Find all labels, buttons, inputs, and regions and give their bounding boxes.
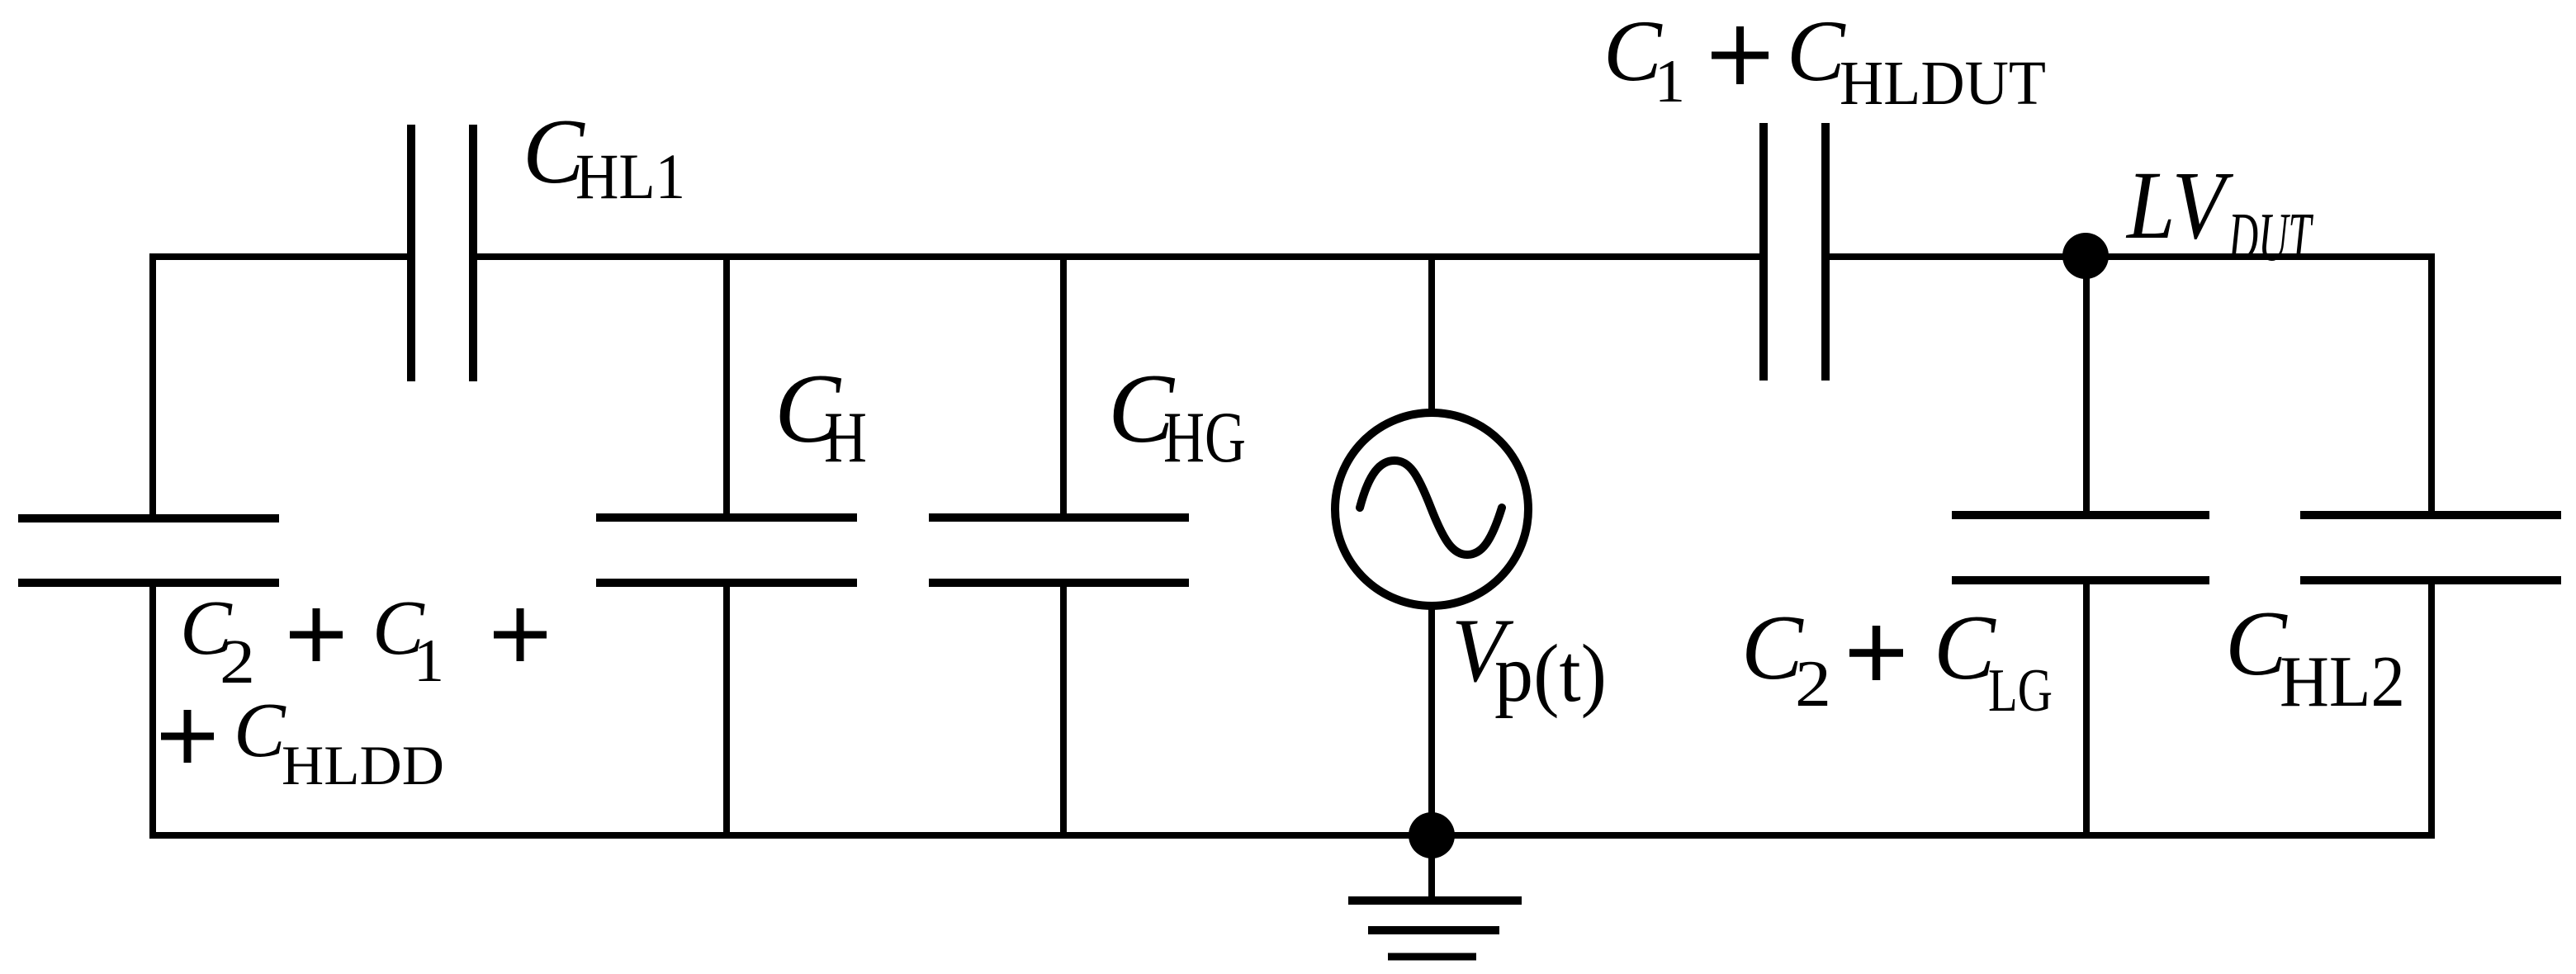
wire node vertical lower [2083,577,2090,835]
label C2+CLG [1741,597,2053,725]
svg-text:2: 2 [220,627,255,697]
source sine wave [1360,461,1502,555]
svg-text:H: H [824,398,867,478]
capacitor C1+CHLDUT plates [1764,123,1825,381]
svg-text:HLDD: HLDD [282,734,444,797]
svg-text:C: C [1787,2,1846,99]
ground symbol [1348,901,1522,957]
source Vp(t) circle [1335,413,1528,606]
label C2+C1+ line1 [180,585,547,697]
label LVDUT [2125,151,2313,276]
wire left vertical upper [149,253,156,522]
svg-text:HLDUT: HLDUT [1840,49,2046,118]
svg-text:HL2: HL2 [2280,642,2405,722]
svg-text:1: 1 [1655,48,1685,116]
svg-text:LV: LV [2125,151,2233,259]
svg-text:LG: LG [1988,657,2053,725]
capacitor CH plates [596,518,857,583]
label CHL1 [523,101,685,212]
wire CH vertical upper [723,253,730,522]
svg-text:1: 1 [414,627,444,695]
svg-text:p(t): p(t) [1494,627,1607,719]
label C1+CHLDUT [1603,2,2046,118]
label CHL2 [2225,593,2405,722]
capacitor CHG plates [929,518,1189,583]
wire source vertical upper [1428,253,1435,416]
node LVDUT dot [2062,233,2109,279]
wire CH vertical lower [723,579,730,835]
ground junction dot [1409,812,1455,858]
capacitor C2+CLG plates [1952,515,2209,580]
svg-text:2: 2 [1795,648,1831,721]
wire top left segment [149,253,408,260]
wire top right segment [1825,253,2435,260]
wire right vertical upper [2428,253,2435,519]
wire right vertical lower [2428,577,2435,835]
svg-text:HL1: HL1 [575,140,685,212]
wire CHG vertical lower [1060,579,1067,835]
wire source vertical lower [1428,603,1435,835]
svg-text:C: C [1934,597,1996,699]
svg-text:DUT: DUT [2228,199,2313,276]
wire node vertical upper [2083,256,2090,519]
capacitor C2+C1+CHLDD plates [18,518,279,583]
svg-text:C: C [2225,593,2288,695]
wire left vertical lower [149,579,156,839]
label +CHLDD line2 [161,688,444,797]
label Vp(t) [1451,600,1607,719]
ground stem wire [1428,835,1435,901]
wire top middle segment [476,253,1764,260]
capacitor CHL2 plates [2300,515,2561,580]
wire bottom [149,832,2435,839]
capacitor CHL1 plates [411,125,473,381]
label CHG [1108,353,1246,478]
svg-text:HG: HG [1163,398,1246,478]
label CH [774,353,867,478]
wire CHG vertical upper [1060,253,1067,522]
svg-text:C: C [234,688,286,773]
